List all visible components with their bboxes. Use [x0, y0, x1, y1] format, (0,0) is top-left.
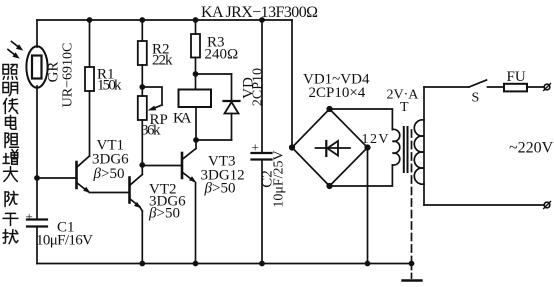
label VD	[241, 77, 257, 99]
label VT2	[148, 182, 186, 222]
transformer T primary winding	[414, 87, 424, 205]
svg-text:150k: 150k	[97, 78, 122, 94]
svg-text:2CP10×4: 2CP10×4	[309, 85, 366, 101]
transistor VT3	[182, 140, 196, 264]
wire VT2 collector to VT3 base	[142, 165, 182, 167]
wire left rail top (to GR)	[36, 20, 38, 47]
svg-text:UR−6910C: UR−6910C	[61, 43, 76, 108]
fuse FU	[504, 84, 544, 92]
transformer T core	[404, 127, 408, 172]
node shield on ground rail	[409, 261, 415, 267]
label ~220V	[509, 140, 554, 157]
wire R1 to VT1 collector	[89, 91, 91, 156]
node bridge negative on ground rail	[365, 261, 371, 267]
resistor R2	[138, 20, 147, 87]
label R2	[152, 42, 173, 69]
wire bridge AC top to transformer secondary	[330, 109, 393, 130]
label transformer T	[400, 100, 409, 115]
svg-text:GR: GR	[46, 62, 62, 83]
svg-text:~220V: ~220V	[509, 140, 554, 157]
relay coil KA	[179, 74, 212, 140]
transistor VT2	[130, 165, 143, 264]
glyph 明	[3, 83, 18, 96]
resistor R1	[85, 20, 94, 91]
wire bridge negative to ground rail	[367, 148, 369, 264]
transformer T secondary winding	[392, 129, 399, 165]
node VT2 collector junction	[139, 162, 145, 168]
node VT3 emitter on ground rail	[193, 261, 199, 267]
label RP	[141, 112, 168, 139]
wire VT1 emitter to VT2 base	[90, 192, 130, 194]
svg-text:10μF/16V: 10μF/16V	[36, 233, 93, 249]
svg-text:2CP10: 2CP10	[251, 68, 266, 106]
label VD type 2CP10	[251, 68, 266, 106]
label annotation 照明低电阻增大 (column of hand-drawn CJK glyphs)	[3, 65, 19, 182]
wire top supply rail	[37, 19, 292, 21]
svg-text:12V: 12V	[362, 132, 389, 147]
label VT3	[201, 154, 245, 197]
glyph 低	[4, 99, 18, 114]
svg-text:22k: 22k	[152, 53, 173, 69]
label C2	[260, 170, 276, 188]
label R3	[205, 35, 239, 63]
svg-text:T: T	[400, 100, 409, 115]
wire primary bottom to terminal	[424, 204, 544, 206]
terminal N (bottom, slashed circle)	[544, 202, 551, 209]
label KA	[173, 111, 192, 127]
label C2 value	[272, 150, 287, 207]
glyph 大	[4, 167, 18, 182]
svg-text:β>50: β>50	[148, 206, 180, 222]
svg-text:+: +	[26, 209, 33, 224]
node relay bottom junction	[193, 137, 199, 143]
resistor R3	[191, 20, 200, 74]
svg-text:36k: 36k	[141, 123, 161, 139]
svg-text:β>50: β>50	[93, 166, 125, 182]
node VT1 base junction	[34, 175, 40, 181]
svg-text:240Ω: 240Ω	[205, 47, 239, 63]
svg-text:FU: FU	[507, 69, 526, 85]
node R2/RP junction	[139, 84, 145, 90]
label title KA JRX-13F300Ω	[201, 4, 318, 21]
potentiometer RP	[138, 87, 162, 165]
node R2 top junction	[139, 17, 145, 23]
label FU	[507, 69, 526, 85]
label VD1~VD4	[303, 72, 370, 102]
photoresistor GR	[8, 42, 48, 88]
node R3 bottom junction	[193, 71, 199, 77]
label R1	[97, 67, 122, 94]
glyph 干	[3, 213, 18, 225]
wire top rail to bridge + corner	[291, 20, 293, 148]
label UR-6910C	[61, 43, 76, 108]
glyph 照	[3, 65, 17, 80]
label C1 value	[36, 220, 93, 249]
capacitor C2	[252, 20, 272, 264]
transistor VT1	[77, 156, 91, 193]
node VT2 emitter on ground rail	[139, 261, 145, 267]
svg-text:S: S	[472, 91, 480, 106]
switch S	[469, 80, 504, 87]
glyph 电	[6, 115, 16, 129]
node C2 bottom junction	[259, 261, 265, 267]
svg-text:β>50: β>50	[204, 181, 236, 197]
wire transformer shield (dashed) to ground	[411, 130, 413, 278]
glyph 阻	[5, 133, 18, 148]
wire left rail below GR to C1	[36, 86, 38, 220]
label 12V	[362, 132, 389, 147]
bridge rectifier VD1-VD4	[289, 106, 371, 189]
wire bottom ground rail	[37, 263, 412, 265]
glyph 扰	[3, 230, 18, 244]
label transformer 2V·A	[387, 88, 420, 103]
diode VD	[196, 74, 240, 140]
node R3 top junction	[193, 17, 199, 23]
node C2 top junction	[259, 17, 265, 23]
terminal L (top, slashed circle)	[544, 84, 551, 91]
svg-text:+: +	[252, 140, 259, 155]
wire primary top to switch	[424, 86, 469, 88]
svg-text:KA: KA	[173, 111, 192, 127]
glyph 防	[5, 191, 18, 206]
wire bridge AC bottom to transformer secondary	[330, 165, 393, 186]
label S	[472, 91, 480, 106]
svg-text:10μF/25V: 10μF/25V	[272, 150, 287, 207]
label VT1	[92, 138, 129, 183]
svg-text:KA JRX−13F300Ω: KA JRX−13F300Ω	[201, 4, 318, 21]
glyph 增	[3, 150, 18, 165]
label GR	[46, 62, 62, 83]
ground	[403, 279, 422, 281]
label annotation 防干扰 (column of hand-drawn CJK glyphs)	[3, 191, 18, 243]
capacitor C1	[26, 209, 48, 227]
wire VT1 base	[37, 177, 77, 179]
node R1 top junction	[87, 17, 93, 23]
wire left rail below C1	[36, 227, 38, 264]
